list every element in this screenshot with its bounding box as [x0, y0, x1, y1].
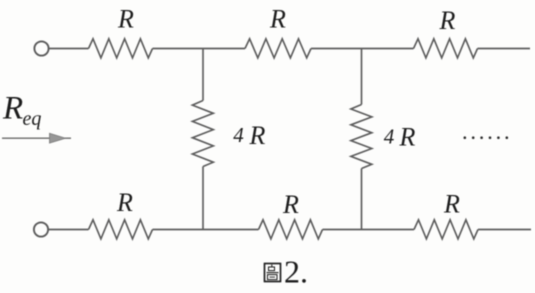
wire top rail: R2 to R3 through node B	[311, 48, 414, 50]
svg-text:R: R	[249, 121, 266, 150]
terminal circle bottom-left	[34, 222, 48, 236]
wire top rail: R1 to R2 through node A	[153, 48, 246, 50]
resistor 4R (right shunt)	[351, 105, 372, 169]
terminal circle top-left	[34, 41, 48, 55]
resistor R (top-right)	[414, 39, 478, 58]
resistor R (top-left)	[89, 39, 153, 58]
wire vertical branch 2 lower (to node D)	[361, 169, 363, 230]
resistor 4R (left shunt)	[192, 101, 213, 167]
svg-text:R: R	[269, 5, 286, 34]
caption character 圖 (figure) drawn as glyph	[265, 264, 281, 282]
wire top rail: terminal to R1	[49, 48, 89, 50]
svg-text:R: R	[399, 122, 416, 151]
wire bottom rail: R6 to right edge	[478, 229, 531, 231]
svg-text:R: R	[117, 5, 134, 34]
wire vertical branch 1 upper (node A down)	[202, 49, 204, 101]
resistor R (bottom-middle)	[259, 220, 323, 239]
svg-text:R: R	[439, 6, 456, 35]
arrow for Req (pointing right)	[2, 137, 71, 139]
svg-text:4: 4	[233, 123, 244, 147]
wire bottom rail: R4 to R5 through node C	[153, 229, 259, 231]
svg-text:R: R	[116, 188, 133, 217]
wire top rail: R3 to right edge	[478, 48, 531, 50]
wire vertical branch 1 lower (to node C)	[202, 167, 204, 230]
wire bottom rail: terminal to R4	[48, 229, 89, 231]
svg-text:R: R	[282, 190, 299, 219]
resistor R (top-middle)	[245, 39, 311, 58]
resistor R (bottom-left)	[89, 220, 153, 239]
svg-text:eq: eq	[23, 108, 42, 130]
continuation dots ......	[464, 136, 509, 139]
resistor R (bottom-right)	[414, 220, 478, 239]
svg-text:R: R	[443, 190, 460, 219]
svg-text:R: R	[2, 91, 23, 127]
wire vertical branch 2 upper (node B down)	[361, 49, 363, 105]
wire bottom rail: R5 to R6 through node D	[323, 229, 415, 231]
svg-text:2.: 2.	[284, 253, 308, 289]
svg-text:4: 4	[384, 125, 395, 149]
